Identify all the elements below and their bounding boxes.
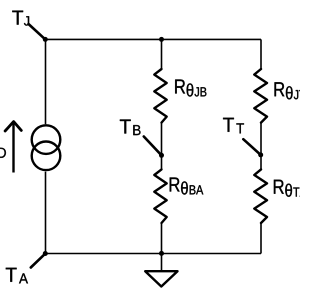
label PD xyxy=(0,142,6,158)
wire middle vertical top stub xyxy=(161,39,163,69)
wire bottom horizontal TA rail xyxy=(45,253,261,255)
wire right vertical between resistors (node TT) xyxy=(260,123,262,170)
junction dot node TT xyxy=(258,152,263,157)
arrow PD shaft xyxy=(12,123,14,173)
arrow PD head chevron xyxy=(5,122,21,131)
wire ground stub xyxy=(161,254,163,272)
label RthJT xyxy=(275,82,306,99)
label TT xyxy=(223,118,244,134)
junction dot ground node xyxy=(159,251,164,256)
label RthTA xyxy=(274,180,307,197)
junction dot node TJ left xyxy=(43,37,48,42)
current source PD circle lower xyxy=(32,142,61,171)
label RthBA xyxy=(170,178,204,195)
resistor RthJB zigzag xyxy=(154,69,166,123)
leader line TJ xyxy=(29,24,46,39)
resistor RthBA zigzag xyxy=(154,169,166,223)
wire left vertical upper (node TJ to current source) xyxy=(45,39,47,124)
wire top horizontal TJ node rail xyxy=(45,38,261,40)
wire right vertical bottom stub xyxy=(260,223,262,254)
leader line TT xyxy=(243,139,260,155)
label TJ xyxy=(12,11,29,26)
resistor RthTA zigzag xyxy=(254,169,267,223)
leader line TB xyxy=(144,137,162,156)
current source PD circle upper xyxy=(32,125,61,154)
junction dot node TA xyxy=(43,251,48,256)
label RthJB xyxy=(175,80,206,97)
resistor RthJT zigzag xyxy=(254,69,267,123)
label TA xyxy=(6,268,28,284)
wire middle vertical bottom stub xyxy=(161,223,163,254)
ground symbol triangle xyxy=(145,271,177,286)
junction dot node TB xyxy=(159,153,164,158)
junction dot node TJ middle xyxy=(159,37,164,42)
leader line TA xyxy=(31,254,46,268)
wire left vertical lower (current source to node TA) xyxy=(45,172,47,254)
wire right vertical top stub xyxy=(260,39,262,69)
label TB xyxy=(120,120,141,136)
wire middle vertical between resistors (node TB) xyxy=(161,123,163,170)
